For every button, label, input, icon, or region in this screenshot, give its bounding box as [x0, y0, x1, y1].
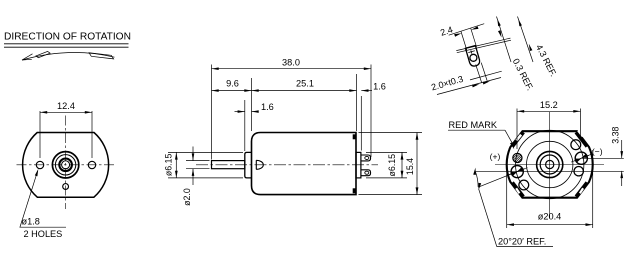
circle can — [516, 130, 584, 198]
endcap hub — [356, 152, 361, 178]
dim 6.15r line — [401, 152, 403, 178]
vent hole bottom-left — [519, 180, 529, 190]
dim 12.4 line — [40, 111, 92, 113]
detail 2.4 ext2 — [471, 28, 477, 47]
label 20-20 underline — [497, 246, 553, 248]
dim 20.4 line — [507, 224, 593, 226]
front shaft circle — [62, 161, 70, 169]
svg-text:9.6: 9.6 — [226, 78, 239, 88]
svg-text:15.2: 15.2 — [540, 100, 558, 110]
ext can-back — [356, 74, 358, 131]
leader underline — [20, 226, 67, 228]
svg-text:4.3 REF.: 4.3 REF. — [534, 43, 559, 78]
chamfer top-left — [512, 132, 523, 146]
motor front outline — [23, 133, 109, 198]
dim 9.6 line — [212, 90, 252, 92]
front boss circle outer — [52, 152, 78, 178]
ext hub bot — [366, 177, 407, 179]
notch bottom-right — [579, 188, 584, 194]
detail plane P2 — [457, 40, 511, 53]
svg-text:ø6.15: ø6.15 — [387, 154, 397, 177]
underline 2 — [4, 46, 129, 48]
leader line 2 holes — [20, 171, 38, 227]
motor body side — [252, 133, 357, 195]
ext hub top — [366, 151, 407, 153]
bearing dome — [256, 160, 263, 169]
svg-text:2.0×t0.3: 2.0×t0.3 — [430, 74, 464, 93]
dim 38 ext right — [370, 65, 372, 158]
dim 15.2 ext right — [580, 109, 582, 141]
dim 1.6r line — [361, 90, 372, 92]
notch bottom-left — [515, 188, 520, 194]
detail 2.4 dim line — [449, 24, 485, 36]
dim 38 line — [212, 68, 372, 70]
svg-text:0.3 REF.: 0.3 REF. — [511, 57, 536, 92]
endcap shaft — [546, 160, 554, 168]
detail 2.0 ext1 — [476, 65, 482, 83]
detail tab outline — [466, 46, 480, 66]
dim 6.15l line — [175, 152, 177, 178]
crimp tab top — [353, 134, 356, 139]
svg-text:ø2.0: ø2.0 — [182, 188, 192, 206]
shaft — [212, 161, 245, 169]
crimp tab bottom — [353, 188, 356, 193]
detail plane P1 — [456, 38, 510, 51]
front horizontal centerline — [17, 164, 116, 166]
endcap horizontal centerline — [495, 164, 604, 166]
detail plane P3 — [470, 71, 502, 80]
endcap hub outer — [537, 151, 563, 177]
dim 12.4 ext left — [39, 111, 41, 158]
bearing boss — [245, 152, 252, 178]
ext body top — [359, 132, 423, 134]
svg-text:1.6: 1.6 — [373, 81, 386, 91]
dim 2.0 line — [192, 147, 194, 161]
svg-text:38.0: 38.0 — [282, 57, 300, 67]
endcap hub mid — [540, 155, 559, 174]
dim 15.2 ext left — [516, 109, 518, 150]
angle leader — [479, 189, 497, 247]
ext boss-left — [244, 100, 246, 151]
front hole right — [88, 161, 95, 168]
detail 2.4 ext1 — [461, 32, 467, 51]
detail 4.3 dim line — [518, 17, 534, 63]
svg-text:(+): (+) — [490, 151, 501, 161]
dim 20.4 ext right — [592, 150, 594, 228]
chamfer top-right — [576, 132, 587, 146]
circle boss — [527, 141, 573, 187]
screw left — [511, 166, 523, 178]
angle arc — [475, 172, 478, 187]
dim 38 ext left — [211, 65, 213, 160]
angle ref line slanted — [478, 172, 517, 188]
front hub ring — [59, 159, 72, 172]
svg-text:(−): (−) — [592, 147, 603, 157]
dim 3.38 line — [621, 140, 623, 158]
detail tab crimp — [468, 51, 475, 53]
screw slot axis right — [571, 154, 592, 162]
chamfer bottom-right — [576, 182, 587, 196]
svg-text:ø1.8: ø1.8 — [22, 216, 40, 226]
ext boss bot — [168, 177, 243, 179]
vent hole top-right — [571, 140, 581, 150]
screw slot axis left — [507, 168, 528, 176]
dim 15.4 line — [416, 133, 418, 195]
ext shaft bot — [186, 168, 210, 170]
dim 1.6l arrows — [235, 111, 245, 113]
ext can-left — [251, 78, 253, 131]
svg-text:15.4: 15.4 — [405, 158, 415, 175]
front hole bottom — [63, 184, 69, 190]
svg-text:20°20′ REF.: 20°20′ REF. — [498, 236, 546, 246]
front boss circle 2 — [55, 155, 75, 175]
svg-text:DIRECTION OF ROTATION: DIRECTION OF ROTATION — [4, 32, 131, 43]
ext shaft top — [186, 160, 210, 162]
detail 0.3 dim line — [497, 17, 512, 63]
dim 25.1 line — [252, 90, 357, 92]
red mark underline — [448, 129, 505, 131]
svg-text:2.4: 2.4 — [439, 24, 454, 37]
svg-text:RED MARK: RED MARK — [449, 120, 498, 130]
terminal notch top-right — [577, 130, 584, 137]
front vertical centerline — [65, 116, 67, 210]
detail 2.0 ext2 — [481, 63, 487, 81]
ext hub-face — [360, 96, 362, 151]
red mark — [509, 153, 527, 162]
ext boss top — [168, 151, 243, 153]
svg-text:ø6.15: ø6.15 — [164, 154, 174, 177]
red mark leader — [505, 130, 512, 143]
detail 2.0 dim line — [437, 78, 501, 95]
dim 20.4 ext left — [506, 172, 508, 228]
ext body bot — [359, 194, 423, 196]
front hole left — [36, 161, 43, 168]
dim 3.38 ext top — [581, 157, 624, 159]
endcap outline — [507, 131, 593, 198]
svg-text:1.6: 1.6 — [261, 102, 274, 112]
detail tab hole — [470, 54, 477, 61]
chamfer bottom-left — [512, 182, 523, 196]
dim 15.2 line — [517, 110, 581, 112]
terminal lower side — [361, 170, 371, 176]
vent hole bottom-right — [574, 167, 583, 176]
terminal notch top-left — [515, 134, 522, 141]
underline 1 — [4, 43, 129, 45]
screw right — [575, 152, 587, 164]
rotation arrow — [22, 52, 115, 60]
dim 12.4 ext right — [91, 111, 93, 158]
svg-text:3.38: 3.38 — [610, 127, 620, 144]
dim 3.38 ext bottom — [475, 171, 624, 173]
endcap vertical centerline — [549, 112, 551, 219]
side centerline — [196, 164, 378, 166]
svg-text:2 HOLES: 2 HOLES — [24, 229, 63, 239]
svg-text:25.1: 25.1 — [296, 78, 314, 88]
svg-text:ø20.4: ø20.4 — [538, 212, 562, 222]
terminal upper side — [361, 155, 371, 161]
svg-text:12.4: 12.4 — [57, 101, 75, 111]
